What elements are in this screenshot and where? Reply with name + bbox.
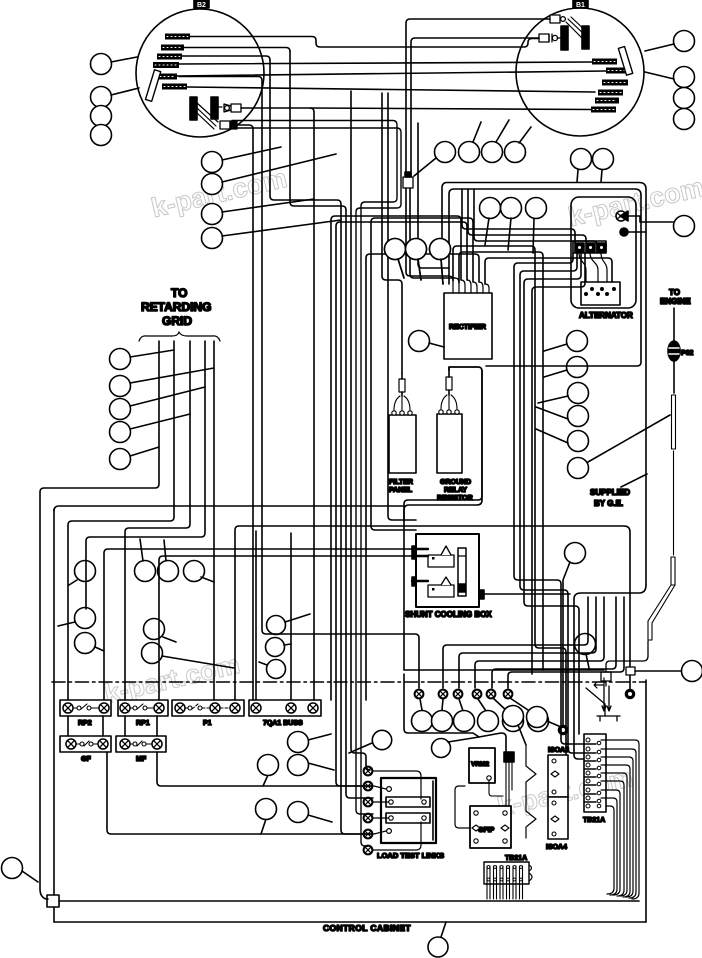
mid callouts row (alternator wires) bbox=[480, 198, 501, 219]
wire B2 bar2 stub bbox=[184, 48, 290, 52]
svg-text:RESISTOR: RESISTOR bbox=[437, 495, 473, 502]
black connector bbox=[504, 752, 514, 762]
rectifier top pins (curls) bbox=[449, 276, 489, 293]
B1 vertical bar 1 bbox=[561, 26, 568, 50]
right stub bbox=[479, 590, 484, 599]
svg-text:GF: GF bbox=[81, 756, 91, 763]
control cabinet border bottom bbox=[54, 921, 646, 923]
callout L2 bbox=[91, 87, 112, 108]
screw above isoa3 bbox=[559, 726, 568, 735]
wire bundle 346: B2 bar2 chain to screw5 bbox=[290, 52, 373, 799]
wire load t2 to MF bbox=[157, 752, 373, 786]
wire B2 chain to load t4 bbox=[232, 121, 397, 847]
label B2 bbox=[194, 0, 209, 8]
grid callout 3 bbox=[110, 399, 131, 420]
wire mid plug down to rectifier bbox=[406, 188, 449, 276]
alternator terminal strip bbox=[573, 241, 606, 253]
alternator top callouts bbox=[571, 149, 592, 170]
rectifier left callout bbox=[409, 331, 430, 352]
B2 plug 1 bbox=[224, 104, 241, 112]
fuse chain up-right to GE bar bbox=[606, 641, 648, 672]
B2 plug 2 bbox=[220, 121, 237, 129]
wire 7QA1-left riser bbox=[255, 531, 257, 700]
grid callout 2 bbox=[110, 376, 131, 397]
wire cabinet corner to GRR loop bbox=[54, 506, 404, 511]
svg-text:ALTERNATOR: ALTERNATOR bbox=[579, 311, 633, 320]
wire bundle 371: rectifier to shunt bbox=[371, 218, 473, 530]
right connector square bbox=[626, 667, 635, 675]
callout M3 bbox=[202, 204, 223, 225]
svg-text:GRID: GRID bbox=[162, 314, 192, 328]
engine wire bbox=[673, 308, 675, 340]
svg-text:7QA1 BUSS: 7QA1 BUSS bbox=[263, 720, 303, 727]
wire bundle 366: to load t6 bbox=[366, 254, 479, 700]
GRR box bbox=[437, 414, 462, 473]
svg-text:ISOA4: ISOA4 bbox=[546, 844, 567, 851]
B2 vertical bar 2 bbox=[211, 97, 218, 119]
wire rect pin7 to alternator box bbox=[485, 258, 612, 284]
wire square to screw bbox=[629, 675, 631, 689]
rectifier box bbox=[444, 293, 492, 359]
B1 terminal bar 1 bbox=[591, 59, 628, 113]
filter fuse bbox=[399, 379, 405, 392]
svg-text:BY G.E.: BY G.E. bbox=[594, 499, 623, 508]
leader bbox=[645, 44, 674, 51]
wire bus bottom bbox=[56, 900, 639, 902]
svg-text:TO: TO bbox=[171, 286, 187, 300]
left stubs bbox=[412, 549, 428, 581]
B1 plug 2 bbox=[539, 34, 558, 42]
callout T3 bbox=[482, 142, 503, 163]
callout R4 bbox=[674, 109, 695, 130]
P1 box bbox=[172, 700, 244, 716]
connector square on left border bbox=[47, 895, 59, 907]
center bar bbox=[458, 548, 466, 596]
B1 vertical bar 2 bbox=[582, 26, 589, 49]
grid callout 5 bbox=[110, 449, 131, 470]
svg-text:B1: B1 bbox=[576, 2, 585, 9]
leader bbox=[621, 474, 647, 487]
wire 7QA1-mid riser bbox=[290, 533, 292, 700]
leader bbox=[645, 72, 674, 79]
filter panel box bbox=[389, 415, 416, 473]
svg-text:ENGINE: ENGINE bbox=[660, 297, 691, 306]
svg-text:RP2: RP2 bbox=[78, 720, 92, 727]
wire B2 bar1 jog to B1 plug2 bbox=[189, 37, 539, 48]
long cable bar bbox=[648, 395, 676, 640]
leader to plug bbox=[414, 158, 436, 176]
RP1 box bbox=[118, 700, 168, 716]
grid callout 4 bbox=[110, 422, 131, 443]
svg-text:VRM2: VRM2 bbox=[471, 761, 489, 768]
svg-text:PANEL: PANEL bbox=[389, 487, 413, 494]
gfip left wire bbox=[455, 786, 470, 828]
wire screw5 feed from right bbox=[492, 597, 616, 688]
callout R1 bbox=[674, 31, 695, 52]
callout R3 bbox=[674, 88, 695, 109]
GRR terminals bbox=[439, 395, 459, 414]
svg-text:RELAY: RELAY bbox=[444, 487, 467, 494]
MF box bbox=[116, 736, 166, 752]
B2 terminal bar 1 bbox=[153, 34, 190, 90]
B1 plug wires bbox=[557, 17, 588, 40]
callout overlays (rectifier top) bbox=[385, 239, 451, 285]
wire grid g5 to P1 mid bbox=[213, 341, 215, 700]
wire loop2 feeds to strip bbox=[462, 189, 575, 243]
wire screw to right callout bbox=[626, 216, 673, 222]
leader bbox=[519, 127, 531, 143]
leader bbox=[222, 199, 314, 212]
callout R2 bbox=[674, 67, 695, 88]
wire GE line bbox=[404, 669, 604, 671]
wire rect pin chain to TB21A bbox=[459, 252, 543, 670]
P62 connector bbox=[668, 341, 680, 361]
control cabinet border right bbox=[645, 680, 647, 922]
leader bbox=[222, 147, 281, 160]
screw dot bbox=[620, 228, 628, 236]
brace bbox=[139, 332, 220, 341]
RP2 box bbox=[60, 700, 111, 716]
mid plug between verticals bbox=[403, 177, 413, 188]
leader bbox=[496, 120, 509, 142]
svg-text:RECTIFIER: RECTIFIER bbox=[449, 324, 486, 331]
wire right bundle down to ISOA/TB21A bbox=[514, 253, 584, 744]
control cabinet border top (dash-dot) bbox=[52, 681, 646, 683]
wire grid g3 ladder to RP1 left bbox=[125, 341, 190, 700]
svg-text:P62: P62 bbox=[681, 350, 694, 357]
GRR loop wire bbox=[404, 367, 482, 521]
alternator enclosure bbox=[571, 197, 636, 308]
wire x418 vertical bbox=[418, 123, 449, 268]
shunt box bbox=[416, 534, 479, 607]
B2 vertical bar 1 bbox=[190, 97, 197, 120]
wire screw6 feed from right bbox=[508, 597, 624, 688]
lower right callouts bbox=[565, 543, 586, 564]
wire B2 bar5 chain to screw1 bbox=[179, 77, 419, 689]
leader bbox=[222, 154, 336, 182]
wire lower callout leaders bbox=[261, 734, 334, 834]
wire B2 plug2 chain to screw2 bbox=[237, 125, 253, 700]
grid callout 1 bbox=[110, 349, 131, 370]
engine cable bbox=[673, 361, 675, 393]
callout L3 bbox=[91, 106, 112, 127]
svg-text:TB21A: TB21A bbox=[505, 855, 527, 862]
callouts above isoa bbox=[503, 706, 524, 727]
7QA1 BUSS box bbox=[249, 700, 321, 716]
wire 404 to black connector bbox=[404, 674, 506, 752]
arrow bbox=[594, 678, 604, 688]
svg-text:CONTROL CABINET: CONTROL CABINET bbox=[323, 923, 411, 933]
wire RP1-right to shunt stub2 bbox=[159, 556, 413, 700]
svg-text:B2: B2 bbox=[197, 2, 206, 9]
callout T4 bbox=[505, 142, 526, 163]
isoa bracket bbox=[526, 745, 536, 838]
wire GRR big loop bbox=[404, 367, 482, 670]
wire screw2 feed from right bbox=[443, 597, 588, 688]
wire B2 chain to load t3 bbox=[236, 128, 401, 814]
wire screw3 feed from right bbox=[459, 597, 596, 688]
wire RP2 to GF links bbox=[68, 716, 157, 736]
filter terminals bbox=[392, 396, 412, 415]
callout right of screw bbox=[674, 216, 695, 237]
GRR fuse bbox=[446, 377, 452, 390]
callout T2 bbox=[459, 142, 480, 163]
B1 plug 1 bbox=[550, 15, 565, 23]
leader bbox=[473, 122, 481, 142]
svg-text:TO: TO bbox=[669, 288, 680, 297]
svg-text:TB21A: TB21A bbox=[583, 817, 605, 824]
wire load t5 to GF bbox=[107, 752, 373, 834]
wire B2 bar6 to B1 bar5 bbox=[187, 87, 595, 92]
svg-text:SUPPLIED: SUPPLIED bbox=[590, 488, 630, 497]
connector circle B2 bbox=[136, 9, 264, 137]
wire rect pin chain to ISOA3 bbox=[453, 246, 566, 755]
wire alpha1: filter chain bbox=[382, 93, 402, 373]
wire grid g1 to bottom square bbox=[40, 341, 159, 899]
callout T1 bbox=[435, 142, 456, 163]
rect top callouts bbox=[385, 239, 406, 260]
wire B2 bar4 to B1 bar1 bbox=[179, 62, 592, 64]
vrm2 callout bbox=[432, 739, 451, 758]
svg-text:FILTER: FILTER bbox=[389, 479, 413, 486]
wire loop2 inner bbox=[449, 189, 641, 366]
wires down to GFIP bbox=[489, 762, 512, 808]
relay 2 bbox=[428, 577, 454, 597]
svg-text:RETARDING: RETARDING bbox=[141, 300, 211, 314]
right column callouts bbox=[567, 331, 588, 352]
screw with arrow bbox=[616, 211, 628, 221]
control cabinet border left bbox=[53, 509, 55, 922]
screw below bbox=[626, 690, 635, 699]
B1 fuse slanted bbox=[618, 47, 632, 76]
svg-text:P1: P1 bbox=[203, 720, 212, 727]
connector circle B1 bbox=[516, 8, 644, 136]
relay 1 bbox=[428, 546, 454, 567]
svg-text:GROUND: GROUND bbox=[440, 479, 471, 486]
B2 fuse slanted bbox=[145, 70, 160, 102]
wire bundle 331: rectifier pin1 to screw6 bbox=[331, 216, 461, 700]
wire bundle 341: B2 bar3 chain to screw4 bbox=[270, 60, 373, 834]
wire shunt right stub bbox=[484, 593, 570, 595]
svg-text:LOAD TEST LINKS: LOAD TEST LINKS bbox=[377, 851, 444, 860]
wire P1-right chain to right square bbox=[235, 526, 630, 700]
wire grid g4 ladder to callout bbox=[86, 341, 205, 609]
TB21A fan wires bbox=[601, 740, 639, 899]
callout M4 bbox=[202, 228, 223, 249]
alternator box bbox=[581, 282, 620, 305]
label B1 bbox=[573, 0, 588, 8]
GF box bbox=[60, 736, 111, 752]
wire bundle 351: branch to load t1 bbox=[351, 91, 370, 770]
callout L4 bbox=[91, 125, 112, 146]
wire alpha2: to shunt top bbox=[388, 93, 416, 520]
alternator pins bbox=[584, 287, 616, 296]
wire RP2-right to shunt stub1 bbox=[104, 549, 413, 700]
wire grid g2 ladder to RP2 left bbox=[68, 341, 174, 700]
svg-text:SHUNT COOLING BOX: SHUNT COOLING BOX bbox=[405, 610, 492, 619]
callout L1 bbox=[91, 54, 112, 75]
callout M1 bbox=[202, 152, 223, 173]
callout M2 bbox=[202, 174, 223, 195]
wire B1 plug2 to mid plug bbox=[411, 38, 539, 177]
wire alternator strip to box bbox=[579, 253, 607, 282]
callout bottom center bbox=[428, 937, 448, 957]
wire loop1 bbox=[442, 183, 646, 586]
wire bundle 336: rectifier pin2 to screw3 bbox=[336, 222, 467, 786]
leader bbox=[111, 88, 139, 95]
leader bbox=[111, 57, 137, 62]
wire screw4 feed from right bbox=[475, 597, 604, 688]
callout bottom left bbox=[2, 858, 23, 879]
wire B2 plug1 to B1 bar6 with branch down bbox=[241, 108, 591, 110]
svg-text:RP1: RP1 bbox=[136, 720, 150, 727]
wire B1 plug1 to mid plug bbox=[406, 19, 550, 177]
leader bbox=[222, 220, 341, 236]
svg-text:MF: MF bbox=[136, 756, 147, 763]
wire B2 bar5 to B1 bar2 bbox=[176, 71, 606, 76]
B2 plug wires bbox=[197, 103, 222, 129]
wire B2 bar3 stub bbox=[181, 56, 270, 60]
